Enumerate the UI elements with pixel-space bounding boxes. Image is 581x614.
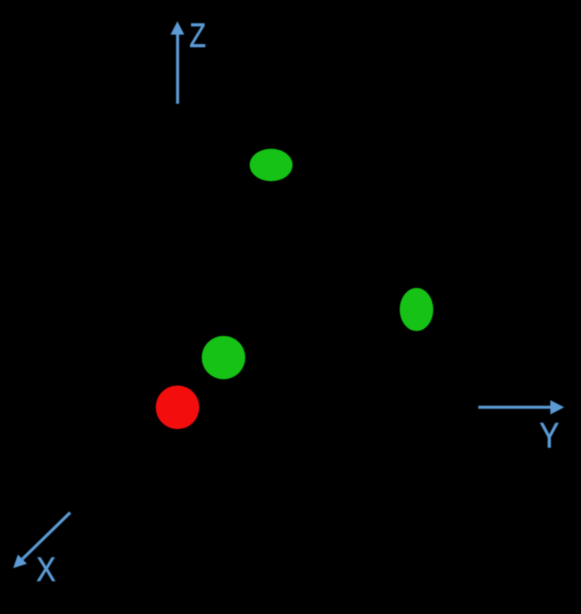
Z axis arrow shaft [176, 34, 179, 104]
svg-text:Z: Z [189, 16, 206, 55]
green ellipse right (point 2) [400, 288, 434, 331]
svg-text:X: X [36, 550, 55, 589]
Z axis label [189, 16, 206, 55]
Y axis arrowhead [550, 400, 564, 414]
Y axis label [540, 416, 560, 455]
Y axis arrow shaft [478, 406, 551, 409]
X axis label [36, 550, 55, 589]
svg-text:Y: Y [540, 416, 560, 455]
Z axis arrowhead [171, 21, 185, 34]
X axis arrow shaft [22, 513, 70, 560]
X axis arrowhead [13, 555, 27, 569]
green ellipse top (point 1) [250, 149, 293, 181]
red circle origin (point 4) [156, 386, 200, 430]
green circle middle (point 3) [202, 336, 246, 379]
